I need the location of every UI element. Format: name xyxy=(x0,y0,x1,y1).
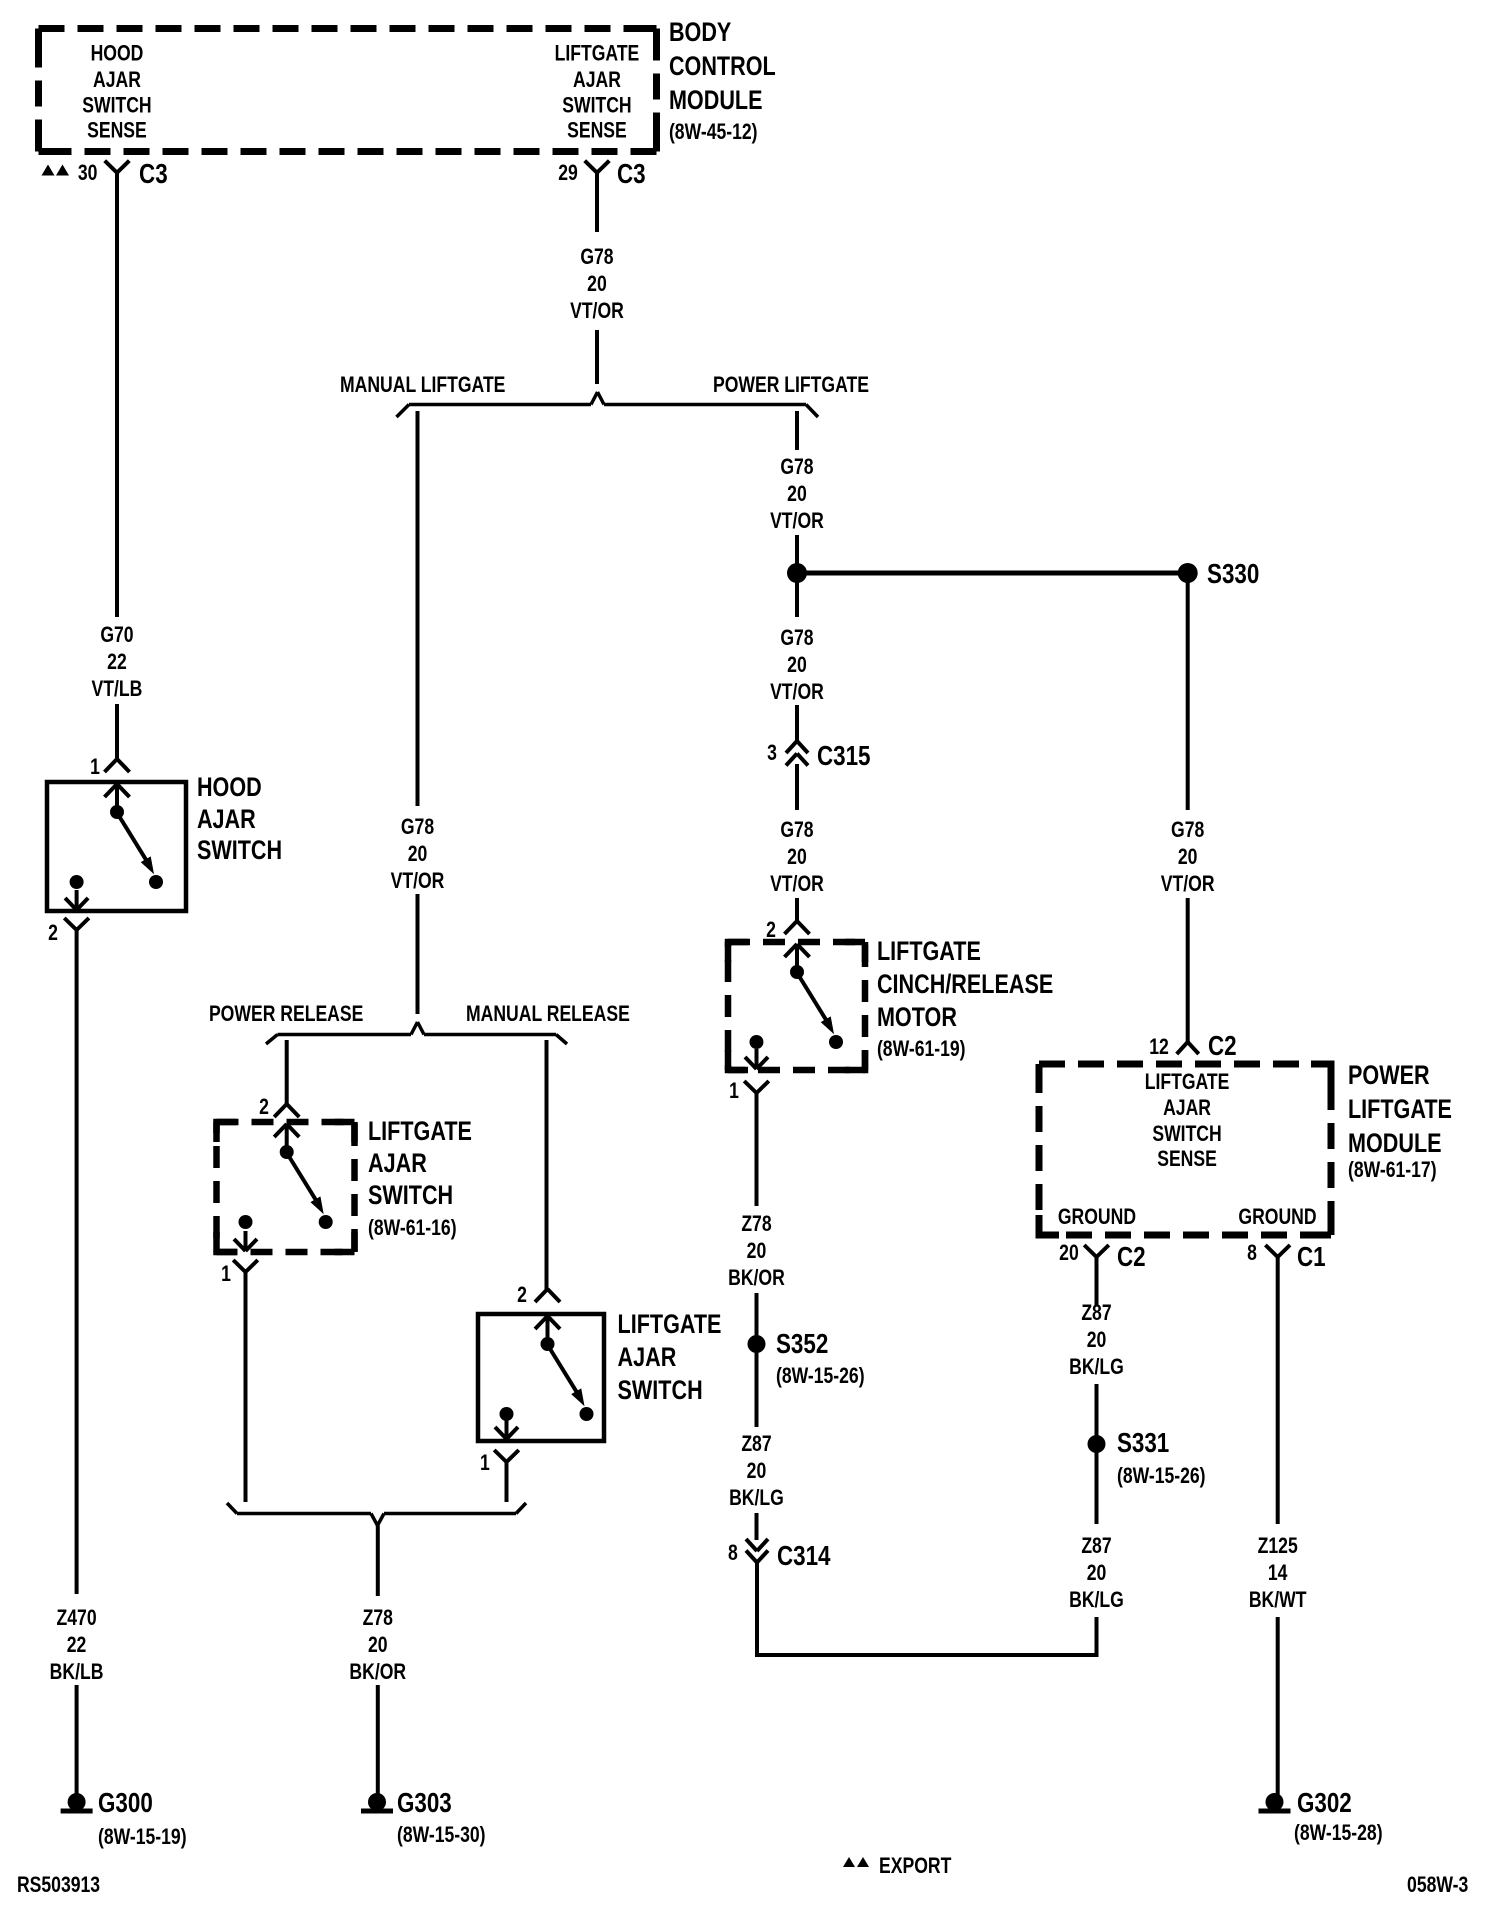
wire G78 segment above motor xyxy=(795,898,799,921)
svg-text:058W-3: 058W-3 xyxy=(1407,1873,1468,1897)
svg-text:LIFTGATE: LIFTGATE xyxy=(555,42,640,66)
hood switch pin 2 connector xyxy=(64,918,89,930)
pin number 2 (cinch/release motor) xyxy=(766,918,776,942)
wire label G70 22 VT/LB xyxy=(92,623,143,701)
svg-text:BK/LG: BK/LG xyxy=(729,1486,784,1510)
svg-text:BK/OR: BK/OR xyxy=(728,1266,785,1290)
svg-text:BK/WT: BK/WT xyxy=(1249,1588,1307,1612)
PLM pin 12 connector symbol xyxy=(1177,1042,1199,1054)
splice S330 dot xyxy=(1178,563,1198,583)
branch label: MANUAL RELEASE xyxy=(466,1002,630,1026)
component name: BODY CONTROL MODULE (8W-45-12) xyxy=(669,18,776,145)
svg-text:Z470: Z470 xyxy=(57,1606,97,1630)
wire G78 segment below junction xyxy=(795,581,799,617)
svg-text:20: 20 xyxy=(408,842,428,866)
connector C3 pin 29 symbol xyxy=(585,161,610,173)
wire from liftgate ajar switch (8W-61-16) pin1 xyxy=(244,1272,248,1502)
svg-text:BK/LB: BK/LB xyxy=(50,1660,104,1684)
wire Z470 lower segment xyxy=(75,1685,79,1796)
branch label: MANUAL LIFTGATE xyxy=(340,373,505,397)
wire G78 segment below pin 29 xyxy=(595,173,599,232)
cinch/release motor pin 2 connector xyxy=(785,921,810,934)
PLM pin 20 connector symbol xyxy=(1084,1245,1109,1257)
svg-text:20: 20 xyxy=(1178,845,1198,869)
branch label: POWER LIFTGATE xyxy=(713,373,869,397)
svg-text:BODY: BODY xyxy=(669,18,731,48)
pin number 30 xyxy=(78,161,98,185)
wire label G78 20 VT/OR (power liftgate 1) xyxy=(770,455,824,533)
svg-text:C314: C314 xyxy=(777,1541,831,1572)
liftgate ajar switch contacts (solid) xyxy=(500,1316,594,1421)
svg-text:Z87: Z87 xyxy=(741,1432,771,1456)
PLM pin 8 connector symbol xyxy=(1265,1245,1290,1257)
svg-text:(8W-15-19): (8W-15-19) xyxy=(98,1825,187,1849)
wire Z87 segment to bottom corner xyxy=(1095,1617,1099,1657)
cinch/release motor pin 1 connector xyxy=(744,1081,769,1093)
BCM internal label: LIFTGATE AJAR SWITCH SENSE xyxy=(555,42,640,143)
svg-text:BK/LG: BK/LG xyxy=(1069,1588,1124,1612)
connector label C2 (PLM pin 12) xyxy=(1208,1031,1237,1062)
component name: LIFTGATE AJAR SWITCH (8W-61-16) xyxy=(368,1117,472,1241)
sheet code 058W-3 xyxy=(1407,1873,1468,1897)
wire label Z470 22 BK/LB xyxy=(50,1606,104,1684)
wire G70 lower segment xyxy=(115,704,119,759)
connector label C3 (pin 29) xyxy=(617,159,646,190)
svg-text:LIFTGATE: LIFTGATE xyxy=(1348,1095,1452,1125)
pin number 12 (PLM C2) xyxy=(1149,1035,1169,1059)
liftgate ajar switch contacts (8W-61-16) xyxy=(239,1124,333,1229)
svg-text:S331: S331 xyxy=(1117,1428,1169,1459)
svg-text:1: 1 xyxy=(221,1262,231,1286)
svg-text:GROUND: GROUND xyxy=(1058,1205,1136,1229)
wire label Z78 20 BK/OR (to G303) xyxy=(349,1606,406,1684)
component name: LIFTGATE CINCH/RELEASE MOTOR (8W-61-19) xyxy=(877,937,1053,1062)
svg-text:G78: G78 xyxy=(780,818,813,842)
wire G78 segment above PLM xyxy=(1186,898,1190,1042)
liftgate ajar switch (dashed) pin 2 connector xyxy=(274,1104,299,1117)
svg-text:S330: S330 xyxy=(1207,559,1259,590)
liftgate ajar switch box (8W-61-16) xyxy=(217,1122,355,1252)
svg-text:LIFTGATE: LIFTGATE xyxy=(618,1310,722,1340)
svg-text:1: 1 xyxy=(480,1451,490,1475)
svg-text:20: 20 xyxy=(747,1459,767,1483)
svg-text:SWITCH: SWITCH xyxy=(82,94,151,118)
svg-text:22: 22 xyxy=(107,650,127,674)
svg-text:G78: G78 xyxy=(780,626,813,650)
svg-text:VT/OR: VT/OR xyxy=(391,869,445,893)
branch label: POWER RELEASE xyxy=(209,1002,363,1026)
svg-text:G78: G78 xyxy=(401,815,434,839)
svg-text:(8W-15-26): (8W-15-26) xyxy=(776,1364,865,1388)
pin number 2 (hood ajar switch) xyxy=(48,921,58,945)
svg-text:VT/OR: VT/OR xyxy=(1161,872,1215,896)
svg-text:G303: G303 xyxy=(397,1788,452,1819)
liftgate ajar switch pin 1 connector (solid) xyxy=(494,1450,519,1462)
liftgate cinch/release motor bottom contact exit xyxy=(745,1049,768,1069)
connector label C3 (pin 30) xyxy=(139,159,168,190)
svg-text:AJAR: AJAR xyxy=(618,1343,677,1373)
in-line connector C314 symbol xyxy=(746,1539,768,1563)
svg-text:AJAR: AJAR xyxy=(368,1149,427,1179)
wire label Z78 20 BK/OR (motor) xyxy=(728,1212,785,1290)
svg-text:29: 29 xyxy=(558,161,578,185)
wire G70 upper segment xyxy=(115,173,119,617)
svg-text:14: 14 xyxy=(1268,1561,1288,1585)
svg-text:(8W-15-30): (8W-15-30) xyxy=(397,1823,486,1847)
svg-text:22: 22 xyxy=(67,1633,87,1657)
svg-text:POWER LIFTGATE: POWER LIFTGATE xyxy=(713,373,869,397)
wire label G78 20 VT/OR (power liftgate 2) xyxy=(770,626,824,704)
pin number 2 (liftgate ajar switch 8W-61-16) xyxy=(259,1095,269,1119)
wire Z87 segment above S331 xyxy=(1095,1384,1099,1436)
svg-text:S352: S352 xyxy=(776,1329,828,1360)
svg-text:Z125: Z125 xyxy=(1258,1534,1298,1558)
connector C3 pin 30 symbol xyxy=(105,161,130,173)
wire Z87 segment below C314 xyxy=(755,1563,759,1658)
splice label S330 xyxy=(1207,559,1259,590)
wire label Z87 20 BK/LG (PLM lower) xyxy=(1069,1534,1124,1612)
svg-text:2: 2 xyxy=(48,921,58,945)
PLM internal label: GROUND (left) xyxy=(1058,1205,1136,1229)
svg-text:EXPORT: EXPORT xyxy=(879,1854,951,1878)
splice S330 horizontal wire xyxy=(797,571,1188,576)
liftgate cinch/release motor box xyxy=(728,942,865,1070)
pin number 1 (liftgate ajar switch 8W-61-16) xyxy=(221,1262,231,1286)
wire Z78 segment above S352 xyxy=(755,1293,759,1336)
svg-text:CINCH/RELEASE: CINCH/RELEASE xyxy=(877,970,1053,1000)
pin number 3 (C315) xyxy=(767,741,777,765)
module box: BODY CONTROL MODULE xyxy=(39,29,657,152)
wire Z78 merge lower segment xyxy=(376,1685,380,1796)
pin number 1 (cinch/release motor) xyxy=(729,1079,739,1103)
wire Z78 merge upper segment xyxy=(376,1526,380,1597)
svg-text:(8W-61-19): (8W-61-19) xyxy=(877,1037,966,1061)
wire Z87 segment below PLM pin 20 xyxy=(1095,1257,1099,1305)
svg-text:SWITCH: SWITCH xyxy=(618,1376,703,1406)
splice label S331 (8W-15-26) xyxy=(1117,1428,1206,1489)
wire Z470 upper segment xyxy=(75,930,79,1594)
wire manual-release branch segment xyxy=(545,1040,549,1289)
svg-text:G78: G78 xyxy=(1171,818,1204,842)
svg-text:20: 20 xyxy=(1087,1561,1107,1585)
wire Z87 bottom horizontal segment xyxy=(755,1653,1099,1657)
splice S352 dot xyxy=(748,1335,766,1353)
svg-text:LIFTGATE: LIFTGATE xyxy=(368,1117,472,1147)
svg-text:Z78: Z78 xyxy=(741,1212,771,1236)
svg-text:LIFTGATE: LIFTGATE xyxy=(877,937,981,967)
connector label C314 xyxy=(777,1541,831,1572)
hood switch pin 1 connector xyxy=(105,759,130,772)
pin number 8 (C314) xyxy=(728,1541,738,1565)
svg-text:Z87: Z87 xyxy=(1081,1534,1111,1558)
wire label Z87 20 BK/LG (PLM upper) xyxy=(1069,1301,1124,1379)
splice junction dot (S330 left) xyxy=(787,563,807,583)
svg-text:20: 20 xyxy=(787,845,807,869)
splice label S352 (8W-15-26) xyxy=(776,1329,865,1389)
pin number 1 (hood ajar switch) xyxy=(90,755,100,779)
pin number 20 (PLM C2) xyxy=(1059,1241,1079,1265)
svg-text:G78: G78 xyxy=(580,245,613,269)
svg-text:1: 1 xyxy=(729,1079,739,1103)
wire Z87 segment below S331 xyxy=(1095,1452,1099,1524)
liftgate cinch/release motor contacts xyxy=(750,944,844,1049)
svg-text:CONTROL: CONTROL xyxy=(669,52,776,82)
pin number 29 xyxy=(558,161,578,185)
ground G303 xyxy=(361,1793,393,1814)
hood ajar switch contacts xyxy=(70,784,163,889)
svg-text:BK/OR: BK/OR xyxy=(349,1660,406,1684)
svg-text:C3: C3 xyxy=(139,159,168,190)
PLM internal label: GROUND (right) xyxy=(1238,1205,1316,1229)
svg-text:VT/OR: VT/OR xyxy=(770,509,824,533)
sheet number RS503913 xyxy=(17,1873,100,1897)
connector label C315 xyxy=(817,741,871,772)
liftgate ajar switch bottom contact exit (solid) xyxy=(495,1419,518,1439)
svg-text:G300: G300 xyxy=(98,1788,153,1819)
svg-text:1: 1 xyxy=(90,755,100,779)
EXPORT legend text xyxy=(879,1854,951,1878)
svg-text:HOOD: HOOD xyxy=(197,773,262,803)
wire G78 power-liftgate segment 1 xyxy=(795,411,799,450)
wire Z87 segment below S352 xyxy=(755,1352,759,1427)
ground label G300 (8W-15-19) xyxy=(98,1788,187,1850)
svg-text:SWITCH: SWITCH xyxy=(368,1181,453,1211)
svg-text:MOTOR: MOTOR xyxy=(877,1003,957,1033)
svg-text:G70: G70 xyxy=(100,623,133,647)
svg-text:MODULE: MODULE xyxy=(1348,1129,1442,1159)
liftgate ajar switch box (solid) xyxy=(478,1314,604,1441)
svg-text:G78: G78 xyxy=(780,455,813,479)
wire Z125 upper segment xyxy=(1276,1257,1280,1524)
ground label G302 (8W-15-28) xyxy=(1294,1788,1383,1846)
component name: LIFTGATE AJAR SWITCH (solid) xyxy=(618,1310,722,1406)
svg-text:G302: G302 xyxy=(1297,1788,1352,1819)
svg-text:20: 20 xyxy=(1087,1328,1107,1352)
splice S331 dot xyxy=(1088,1435,1106,1453)
pin number 8 (PLM C1) xyxy=(1247,1241,1257,1265)
component name: POWER LIFTGATE MODULE (8W-61-17) xyxy=(1348,1061,1452,1183)
svg-text:VT/OR: VT/OR xyxy=(770,872,824,896)
wire G78 power-liftgate segment 2 xyxy=(795,535,799,565)
svg-text:SENSE: SENSE xyxy=(567,119,627,143)
wire G78 segment above split xyxy=(595,330,599,384)
ground G302 xyxy=(1259,1793,1291,1814)
svg-text:BK/LG: BK/LG xyxy=(1069,1355,1124,1379)
module box: POWER LIFTGATE MODULE xyxy=(1039,1064,1331,1235)
svg-text:C3: C3 xyxy=(617,159,646,190)
svg-text:(8W-15-26): (8W-15-26) xyxy=(1117,1464,1206,1488)
liftgate ajar switch bottom contact exit (8W-61-16) xyxy=(234,1231,257,1251)
svg-text:C1: C1 xyxy=(1297,1242,1326,1273)
connector label C2 (PLM pin 20) xyxy=(1117,1242,1146,1273)
svg-text:3: 3 xyxy=(767,741,777,765)
wire label G78 20 VT/OR (power liftgate 3) xyxy=(770,818,824,896)
wire G78 manual-liftgate upper segment xyxy=(416,411,420,806)
svg-text:AJAR: AJAR xyxy=(573,68,621,92)
svg-text:MANUAL RELEASE: MANUAL RELEASE xyxy=(466,1002,630,1026)
option split bracket xyxy=(397,392,819,417)
svg-text:C2: C2 xyxy=(1117,1242,1146,1273)
wire from liftgate ajar switch (solid) pin1 xyxy=(505,1462,509,1502)
wire G78 segment S330 to label xyxy=(1186,581,1190,810)
svg-text:VT/OR: VT/OR xyxy=(770,680,824,704)
svg-text:(8W-61-16): (8W-61-16) xyxy=(368,1216,457,1240)
in-line connector C315 symbol xyxy=(786,741,808,766)
ground G300 xyxy=(61,1793,93,1814)
wire label G78 20 VT/OR (below BCM) xyxy=(570,245,624,323)
svg-text:MODULE: MODULE xyxy=(669,86,763,116)
wire label Z125 14 BK/WT xyxy=(1249,1534,1307,1612)
svg-text:SWITCH: SWITCH xyxy=(197,836,282,866)
connector label C1 (PLM pin 8) xyxy=(1297,1242,1326,1273)
BCM internal label: HOOD AJAR SWITCH SENSE xyxy=(82,42,151,143)
wire G78 manual-liftgate lower segment xyxy=(416,894,420,1014)
svg-text:(8W-45-12): (8W-45-12) xyxy=(669,120,758,144)
PLM internal label: LIFTGATE AJAR SWITCH SENSE xyxy=(1145,1070,1230,1171)
wire G78 segment below C315 xyxy=(795,764,799,810)
EXPORT marker triangles (pin 30) xyxy=(42,165,70,176)
svg-text:SENSE: SENSE xyxy=(87,119,147,143)
svg-text:SENSE: SENSE xyxy=(1157,1147,1217,1171)
svg-text:AJAR: AJAR xyxy=(197,805,256,835)
svg-text:2: 2 xyxy=(259,1095,269,1119)
pin number 2 (liftgate ajar switch solid) xyxy=(517,1283,527,1307)
svg-text:Z87: Z87 xyxy=(1081,1301,1111,1325)
svg-text:LIFTGATE: LIFTGATE xyxy=(1145,1070,1230,1094)
hood ajar switch box xyxy=(47,782,186,911)
svg-text:AJAR: AJAR xyxy=(1163,1096,1211,1120)
svg-text:GROUND: GROUND xyxy=(1238,1205,1316,1229)
liftgate ajar switch pin 1 connector (8W-61-16) xyxy=(233,1260,258,1272)
pin number 1 (liftgate ajar switch solid) xyxy=(480,1451,490,1475)
svg-text:20: 20 xyxy=(587,272,607,296)
svg-text:20: 20 xyxy=(787,482,807,506)
EXPORT legend triangles xyxy=(843,1857,869,1867)
svg-text:20: 20 xyxy=(787,653,807,677)
wire label G78 20 VT/OR (manual liftgate) xyxy=(391,815,445,893)
svg-text:20: 20 xyxy=(368,1633,388,1657)
hood ajar switch bottom contact exit xyxy=(65,890,88,910)
wire Z125 lower segment xyxy=(1276,1617,1280,1796)
wire power-release branch segment xyxy=(285,1040,289,1104)
wire Z78 segment below motor xyxy=(755,1093,759,1206)
svg-text:Z78: Z78 xyxy=(363,1606,393,1630)
svg-text:MANUAL LIFTGATE: MANUAL LIFTGATE xyxy=(340,373,505,397)
component name: HOOD AJAR SWITCH xyxy=(197,773,282,866)
svg-text:(8W-61-17): (8W-61-17) xyxy=(1348,1158,1437,1182)
liftgate ajar switch (solid) pin 2 connector xyxy=(535,1289,560,1302)
svg-text:2: 2 xyxy=(517,1283,527,1307)
svg-text:C315: C315 xyxy=(817,741,871,772)
svg-text:12: 12 xyxy=(1149,1035,1169,1059)
svg-text:30: 30 xyxy=(78,161,98,185)
svg-text:AJAR: AJAR xyxy=(93,68,141,92)
svg-text:POWER: POWER xyxy=(1348,1061,1430,1091)
svg-text:SWITCH: SWITCH xyxy=(562,94,631,118)
svg-text:VT/LB: VT/LB xyxy=(92,677,143,701)
wire Z87 segment above C314 xyxy=(755,1513,759,1540)
svg-text:POWER RELEASE: POWER RELEASE xyxy=(209,1002,363,1026)
svg-text:SWITCH: SWITCH xyxy=(1152,1122,1221,1146)
wire G78 segment above C315 xyxy=(795,705,799,741)
ground label G303 (8W-15-30) xyxy=(397,1788,486,1848)
svg-text:8: 8 xyxy=(1247,1241,1257,1265)
svg-text:RS503913: RS503913 xyxy=(17,1873,100,1897)
svg-text:20: 20 xyxy=(747,1239,767,1263)
svg-text:VT/OR: VT/OR xyxy=(570,299,624,323)
svg-text:HOOD: HOOD xyxy=(91,42,144,66)
wire label G78 20 VT/OR (to PLM) xyxy=(1161,818,1215,896)
wire label Z87 20 BK/LG (motor side) xyxy=(729,1432,784,1510)
svg-text:8: 8 xyxy=(728,1541,738,1565)
svg-text:(8W-15-28): (8W-15-28) xyxy=(1294,1821,1383,1845)
svg-text:C2: C2 xyxy=(1208,1031,1237,1062)
release split bracket xyxy=(266,1022,567,1044)
merge bracket (release switches to Z78) xyxy=(227,1503,526,1526)
svg-text:20: 20 xyxy=(1059,1241,1079,1265)
